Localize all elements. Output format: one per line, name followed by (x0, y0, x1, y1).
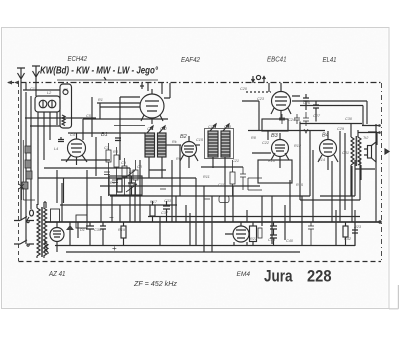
svg-text:C14: C14 (128, 183, 135, 187)
svg-text:+: + (112, 244, 117, 253)
svg-text:C22: C22 (262, 141, 270, 145)
svg-text:C35: C35 (94, 228, 102, 232)
svg-text:EL41: EL41 (323, 57, 337, 64)
svg-text:R21: R21 (250, 237, 257, 241)
svg-text:C19: C19 (218, 183, 226, 187)
svg-text:ZF = 452 kHz: ZF = 452 kHz (133, 279, 177, 288)
svg-text:C31: C31 (342, 151, 349, 155)
svg-text:C4: C4 (70, 133, 75, 137)
svg-text:C11: C11 (147, 127, 154, 131)
svg-text:B1: B1 (101, 132, 108, 138)
svg-text:C15: C15 (196, 138, 204, 142)
svg-text:EM4: EM4 (237, 271, 251, 278)
svg-text:C12: C12 (160, 127, 168, 131)
svg-text:Tr2: Tr2 (363, 136, 369, 140)
svg-text:C1: C1 (30, 87, 35, 91)
svg-text:C30: C30 (345, 117, 353, 121)
svg-text:R1: R1 (98, 98, 103, 102)
svg-text:−: − (109, 213, 114, 222)
svg-text:C23: C23 (257, 97, 265, 101)
svg-text:EAF42: EAF42 (181, 57, 200, 64)
svg-text:C29: C29 (337, 127, 345, 131)
svg-text:B2: B2 (180, 134, 187, 140)
svg-text:L4: L4 (54, 147, 58, 151)
svg-text:ECH42: ECH42 (68, 56, 88, 63)
svg-text:C33: C33 (164, 199, 172, 203)
svg-text:Jura: Jura (264, 267, 293, 286)
svg-text:B4: B4 (322, 133, 329, 139)
svg-text:C21: C21 (232, 159, 239, 163)
svg-text:C37: C37 (161, 211, 169, 215)
svg-text:228: 228 (307, 267, 332, 286)
svg-text:C20: C20 (240, 87, 248, 91)
svg-text:C17: C17 (208, 125, 216, 129)
svg-text:R19: R19 (118, 228, 126, 232)
svg-text:R14: R14 (318, 158, 325, 162)
svg-text:R23: R23 (354, 225, 362, 229)
svg-text:KW(Bd) - KW - MW - LW - Jego°: KW(Bd) - KW - MW - LW - Jego° (40, 66, 158, 77)
svg-text:C42: C42 (344, 237, 352, 241)
svg-text:C39: C39 (268, 238, 276, 242)
svg-text:R17: R17 (150, 200, 158, 204)
svg-text:C24: C24 (288, 118, 295, 122)
svg-text:B3: B3 (271, 133, 279, 139)
svg-text:R12: R12 (294, 144, 302, 148)
svg-text:R15: R15 (296, 183, 304, 187)
svg-text:C27: C27 (313, 114, 321, 118)
svg-text:D1: D1 (80, 228, 85, 232)
svg-text:R10: R10 (268, 159, 276, 163)
svg-text:C18: C18 (224, 125, 232, 129)
svg-text:R11: R11 (203, 175, 210, 179)
svg-text:AZ 41: AZ 41 (48, 269, 65, 278)
svg-text:C26: C26 (303, 101, 311, 105)
svg-text:EBC41: EBC41 (267, 57, 287, 64)
svg-text:C40: C40 (286, 239, 294, 243)
